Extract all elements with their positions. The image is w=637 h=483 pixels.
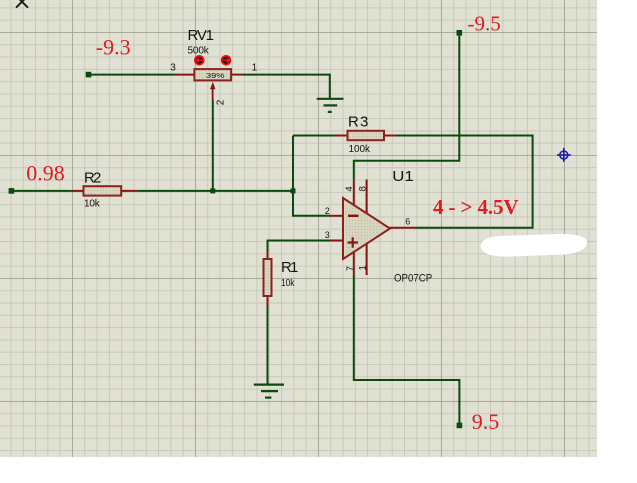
svg-text:10k: 10k: [281, 278, 295, 289]
RV1 increment button: [222, 56, 231, 65]
wire RV1 pin1 to ground corner: [242, 75, 329, 99]
junction at R3 branch: [291, 188, 296, 193]
svg-text:2: 2: [215, 99, 226, 105]
wire R3 left: [293, 135, 335, 137]
wire junction up to R3 and down to pin 2: [293, 136, 330, 216]
svg-text:R3: R3: [348, 114, 368, 131]
potentiometer RV1: [170, 27, 257, 105]
svg-text:39%: 39%: [206, 71, 225, 80]
svg-text:3: 3: [325, 230, 330, 240]
U1 plus symbol: [348, 237, 359, 247]
wire R1 to ground: [267, 307, 269, 385]
ground (below R1): [254, 385, 284, 398]
U1 pin 4 stub: [353, 179, 355, 206]
R3 body: [348, 131, 385, 140]
resistor R3: [335, 114, 397, 155]
U1 pin 7 stub: [353, 251, 355, 275]
junction at RV1 wiper / main net: [210, 188, 215, 193]
svg-text:500k: 500k: [188, 45, 210, 56]
RV1 pin 3 stub: [176, 74, 194, 76]
U1 pin 6 stub: [389, 227, 416, 229]
svg-text:6: 6: [405, 217, 410, 227]
svg-text:R1: R1: [281, 259, 298, 276]
terminal -9.5 power: [457, 30, 463, 36]
wire RV1 wiper down to main net: [212, 100, 214, 192]
R1 body: [264, 259, 272, 296]
R3 right pin: [384, 135, 397, 137]
cursor X mark: [17, 0, 28, 7]
svg-text:8: 8: [357, 186, 368, 191]
R2 body: [84, 186, 122, 195]
svg-text:-9.5: -9.5: [468, 11, 501, 35]
svg-text:-9.3: -9.3: [96, 35, 131, 60]
blue origin crosshair: [557, 148, 571, 162]
svg-text:OP07CP: OP07CP: [394, 272, 432, 284]
svg-text:U1: U1: [392, 168, 414, 185]
wire pin3 net to R1: [268, 241, 331, 252]
ground (near RV1 pin 1): [317, 99, 344, 112]
R2 right pin: [121, 190, 137, 192]
svg-text:7: 7: [345, 266, 356, 271]
svg-text:100k: 100k: [349, 144, 372, 155]
wire R2 to junctions: [138, 190, 293, 192]
U1 minus symbol: [348, 215, 359, 217]
wire R3 right feedback to output: [397, 136, 533, 228]
U1 pin 1 stub: [366, 244, 368, 275]
svg-text:4 - > 4.5V: 4 - > 4.5V: [433, 195, 519, 219]
wire RV1 pin3 feed: [90, 74, 176, 76]
RV1 wiper arrow: [210, 82, 215, 100]
R1 bottom pin: [267, 296, 269, 307]
RV1 pin 1 stub: [231, 74, 242, 76]
svg-text:2: 2: [325, 206, 330, 216]
resistor R1: [264, 251, 299, 307]
U1 pin 8 stub: [366, 179, 368, 214]
RV1 body: [194, 69, 231, 80]
svg-text:1: 1: [358, 265, 369, 270]
U1 triangle: [343, 198, 390, 259]
U1 pin 3 stub: [330, 240, 344, 242]
wire op-amp pin 7 down to 9.5 terminal: [354, 275, 460, 423]
svg-text:9.5: 9.5: [472, 409, 500, 434]
wire -9.5 to op-amp pin 4: [354, 35, 460, 179]
svg-text:10k: 10k: [84, 198, 101, 209]
white eraser blob: [481, 234, 587, 257]
R1 top pin: [267, 251, 269, 259]
terminal input left of RV1 pin 3: [86, 72, 92, 78]
R2 left pin: [71, 190, 84, 192]
R3 left pin: [335, 135, 348, 137]
wire input to R2: [13, 190, 71, 192]
op-amp U1: [325, 168, 432, 284]
terminal input left of R2: [9, 188, 15, 194]
svg-text:1: 1: [252, 63, 258, 74]
svg-text:R2: R2: [84, 170, 101, 187]
svg-text:RV1: RV1: [188, 27, 215, 44]
svg-text:4: 4: [344, 186, 355, 191]
svg-text:0.98: 0.98: [26, 161, 65, 186]
U1 pin 2 stub: [330, 215, 344, 217]
svg-text:3: 3: [170, 63, 176, 74]
terminal 9.5 power: [457, 423, 463, 429]
RV1 decrement button: [195, 56, 204, 65]
resistor R2: [71, 170, 138, 210]
